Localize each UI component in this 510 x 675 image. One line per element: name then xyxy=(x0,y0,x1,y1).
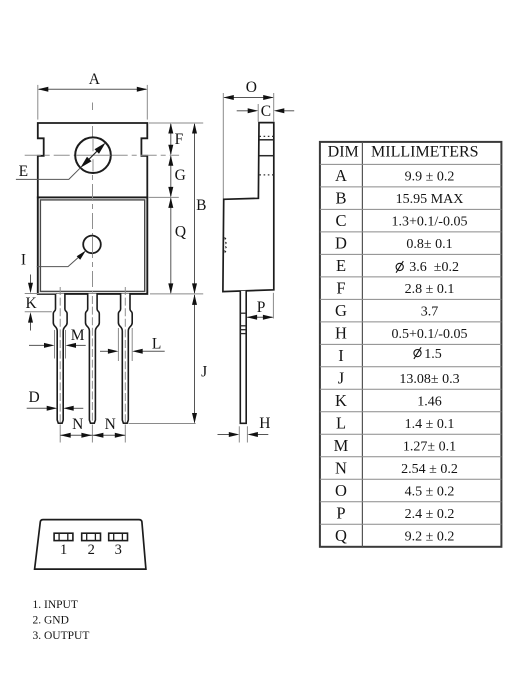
dimensions table: row lines xyxy=(320,163,502,165)
dimension A line and arrows xyxy=(39,88,147,90)
dimension B xyxy=(194,124,196,293)
svg-text:H: H xyxy=(335,324,347,343)
crosshair inside mounting hole xyxy=(76,154,111,156)
svg-text:P: P xyxy=(336,504,345,523)
dimension M arrows xyxy=(29,344,46,346)
dimension P line and arrows xyxy=(247,316,272,318)
side view tab: dotted line 2 xyxy=(259,174,273,176)
svg-text:D: D xyxy=(335,234,347,253)
lead 3 centerline xyxy=(124,287,126,423)
lead 1 centerline xyxy=(59,287,61,423)
svg-text:2. GND: 2. GND xyxy=(33,614,69,626)
front view: molded body outer rectangle xyxy=(38,197,148,294)
dimension O line and arrows xyxy=(224,97,272,99)
svg-text:N: N xyxy=(105,416,116,433)
horizontal centerline through mounting hole xyxy=(25,154,179,156)
svg-text:3.7: 3.7 xyxy=(421,304,439,319)
dimension H arrows xyxy=(218,434,231,436)
dimension O extension lines xyxy=(222,93,224,199)
svg-text:E: E xyxy=(19,163,28,180)
L extension lines xyxy=(117,328,119,361)
dimension F xyxy=(170,124,172,154)
svg-text:F: F xyxy=(336,279,345,298)
side view tab: solid line 1 xyxy=(259,139,273,141)
svg-text:L: L xyxy=(152,336,161,353)
extension line at body top xyxy=(149,196,179,198)
svg-text:3: 3 xyxy=(115,542,122,558)
vertical centerline of package xyxy=(92,126,94,293)
dimension Q xyxy=(170,198,172,293)
svg-text:2.8 ± 0.1: 2.8 ± 0.1 xyxy=(405,282,455,297)
svg-text:O: O xyxy=(335,481,347,500)
svg-text:A: A xyxy=(89,71,101,88)
svg-text:K: K xyxy=(25,295,37,312)
bottom view: package trapezoid xyxy=(35,520,146,570)
lead 2 (front view) xyxy=(86,294,100,424)
svg-text:3.6 ±0.2: 3.6 ±0.2 xyxy=(409,260,459,275)
svg-text:13.08± 0.3: 13.08± 0.3 xyxy=(399,372,459,387)
svg-text:Q: Q xyxy=(175,224,186,241)
dimension C extension line xyxy=(257,104,259,122)
front view: metal tab outline with side notches xyxy=(38,123,148,197)
dimension L arrows xyxy=(100,350,111,352)
svg-text:1.3+0.1/-0.05: 1.3+0.1/-0.05 xyxy=(392,214,468,229)
svg-text:D: D xyxy=(28,389,39,406)
front view: molded body inner rectangle xyxy=(40,200,144,292)
svg-text:1.27± 0.1: 1.27± 0.1 xyxy=(403,439,456,454)
leader arrow to inner hole xyxy=(37,253,84,267)
svg-text:N: N xyxy=(72,416,83,433)
svg-text:1.4 ± 0.1: 1.4 ± 0.1 xyxy=(405,417,455,432)
bottom view pin 2 cross-section xyxy=(82,533,101,540)
side view: lead xyxy=(240,291,246,424)
bottom view pin 1 cross-section xyxy=(54,533,73,540)
svg-text:G: G xyxy=(175,167,186,184)
extension line at body bottom xyxy=(150,293,203,295)
inner hole circle (I) xyxy=(83,236,101,254)
dimension K arrows xyxy=(30,275,32,285)
svg-text:C: C xyxy=(335,211,346,230)
svg-text:C: C xyxy=(261,103,271,120)
side lead bend tick 2 xyxy=(240,325,246,327)
svg-text:K: K xyxy=(335,391,347,410)
svg-text:9.2 ± 0.2: 9.2 ± 0.2 xyxy=(405,529,455,544)
svg-text:2.4 ± 0.2: 2.4 ± 0.2 xyxy=(405,507,455,522)
vertical centerline tick above tab xyxy=(92,103,94,111)
dimensions table: column divider xyxy=(361,142,363,547)
svg-text:MILLIMETERS: MILLIMETERS xyxy=(371,144,479,161)
svg-text:2.54 ± 0.2: 2.54 ± 0.2 xyxy=(401,462,458,477)
dimension P extension line xyxy=(272,293,274,319)
svg-text:J: J xyxy=(201,363,207,380)
dimension A extension lines xyxy=(37,85,39,120)
svg-text:15.95 MAX: 15.95 MAX xyxy=(396,192,464,207)
N extension lines below lead tips xyxy=(59,425,61,443)
svg-text:4.5 ± 0.2: 4.5 ± 0.2 xyxy=(405,484,455,499)
centerline segment through inner hole xyxy=(92,236,94,254)
M extension lines xyxy=(54,330,56,359)
side view: package outline xyxy=(223,123,274,292)
lead 1 (front view) xyxy=(53,294,67,424)
svg-text:M: M xyxy=(71,327,85,344)
dimensions table: outer border xyxy=(320,142,502,547)
svg-text:G: G xyxy=(335,301,347,320)
svg-text:9.9 ± 0.2: 9.9 ± 0.2 xyxy=(405,169,455,184)
side lead bend tick 4 xyxy=(240,333,246,335)
svg-text:N: N xyxy=(335,459,347,478)
svg-text:H: H xyxy=(259,415,270,432)
leader line to E label xyxy=(16,168,81,180)
svg-text:B: B xyxy=(335,189,346,208)
svg-text:0.5+0.1/-0.05: 0.5+0.1/-0.05 xyxy=(392,327,468,342)
K extension line upper (body bottom) xyxy=(25,293,56,295)
side view tab: dotted line 1 xyxy=(259,135,273,137)
side lead bend tick 1 xyxy=(240,312,246,314)
svg-text:M: M xyxy=(334,436,349,455)
dimension D arrows xyxy=(27,407,50,409)
dimension C arrows xyxy=(237,110,250,112)
svg-text:I: I xyxy=(21,251,26,268)
svg-text:0.8± 0.1: 0.8± 0.1 xyxy=(406,237,452,252)
dimension H extension lines xyxy=(238,426,240,442)
K extension line lower (lead shoulder) xyxy=(25,311,52,313)
lead 3 (front view) xyxy=(118,294,132,424)
bottom view pin 3 cross-section xyxy=(109,533,128,540)
extension line at tab top xyxy=(149,122,203,124)
svg-text:A: A xyxy=(335,166,347,185)
svg-text:O: O xyxy=(246,79,257,96)
svg-text:Q: Q xyxy=(335,526,347,545)
side lead bend tick 3 xyxy=(240,329,246,331)
mounting hole circle (E) xyxy=(75,137,111,173)
side view: mold mark on front face xyxy=(224,237,227,253)
svg-text:I: I xyxy=(338,346,344,365)
svg-text:B: B xyxy=(196,197,206,214)
hole diameter arrow (45 deg double arrow) xyxy=(84,146,103,165)
svg-text:1.46: 1.46 xyxy=(417,394,442,409)
svg-text:P: P xyxy=(257,299,266,316)
svg-text:2: 2 xyxy=(88,542,95,558)
side view tab: solid line 2 xyxy=(259,155,273,157)
lead 2 centerline xyxy=(91,296,93,423)
dimension N line and arrows xyxy=(60,434,125,436)
svg-text:1.5: 1.5 xyxy=(424,347,442,362)
svg-text:1. INPUT: 1. INPUT xyxy=(33,599,78,611)
svg-text:J: J xyxy=(338,369,345,388)
dimension J xyxy=(194,295,196,423)
extension line at lead tips xyxy=(129,423,196,425)
svg-text:DIM: DIM xyxy=(328,144,359,161)
svg-text:3. OUTPUT: 3. OUTPUT xyxy=(33,630,90,642)
dimension G xyxy=(170,156,172,196)
svg-text:L: L xyxy=(336,414,346,433)
svg-text:1: 1 xyxy=(60,542,67,558)
svg-text:E: E xyxy=(336,256,346,275)
svg-text:F: F xyxy=(175,131,184,148)
